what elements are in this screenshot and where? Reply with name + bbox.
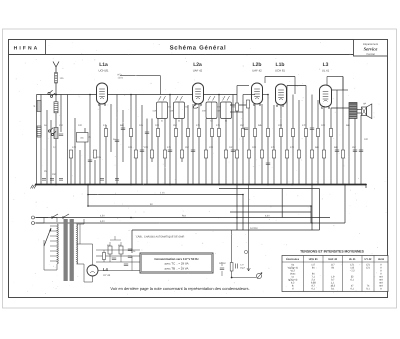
svg-text:C.P.: C.P. [240, 264, 244, 267]
svg-text:L1b: L1b [276, 62, 285, 68]
svg-text:L3: L3 [323, 62, 329, 68]
svg-text:avec TC .. = 29 VA: avec TC .. = 29 VA [164, 262, 188, 266]
svg-text:220: 220 [209, 146, 214, 149]
svg-text:4,5V: 4,5V [100, 215, 105, 218]
svg-text:10n: 10n [97, 156, 102, 159]
svg-text:100: 100 [78, 124, 83, 127]
svg-text:L2b: L2b [253, 62, 262, 68]
svg-text:Rch: Rch [182, 215, 187, 218]
svg-text:Département: Département [363, 43, 378, 46]
svg-text:Unité: Unité [378, 258, 385, 261]
svg-text:UY 42: UY 42 [365, 258, 373, 261]
svg-text:HP: HP [363, 103, 367, 106]
svg-text:UAF 42: UAF 42 [252, 69, 262, 73]
svg-text:220: 220 [278, 124, 283, 127]
svg-text:UCH 81: UCH 81 [99, 69, 109, 73]
svg-text:2k2: 2k2 [240, 124, 245, 127]
svg-text:220: 220 [144, 146, 149, 149]
svg-text:50+50: 50+50 [219, 262, 226, 265]
svg-text:UCH 81: UCH 81 [309, 258, 319, 261]
svg-text:Consommation vers 117 V 50 Hz: Consommation vers 117 V 50 Hz [154, 257, 199, 261]
svg-text:Central: Central [366, 53, 375, 56]
svg-text:25µF: 25µF [240, 267, 246, 270]
svg-text:2x220V: 2x220V [250, 227, 258, 230]
svg-text:100: 100 [155, 124, 160, 127]
svg-text:100: 100 [128, 146, 133, 149]
svg-text:2k2: 2k2 [59, 124, 64, 127]
svg-text:CÂBL. CHÂSSIS AUTOMATIQUE DE G: CÂBL. CHÂSSIS AUTOMATIQUE DE GMR [136, 235, 184, 239]
svg-text:UY 42: UY 42 [103, 274, 111, 277]
svg-text:470: 470 [290, 146, 295, 149]
svg-text:UCH 81: UCH 81 [275, 69, 285, 73]
svg-text:2k2: 2k2 [185, 146, 190, 149]
svg-text:S: S [34, 105, 36, 108]
svg-text:6,3V: 6,3V [265, 215, 270, 218]
svg-text:L4: L4 [103, 267, 109, 272]
svg-text:TENSIONS ET INTENSITES MOYENNE: TENSIONS ET INTENSITES MOYENNES [300, 249, 365, 253]
svg-text:Électrodes: Électrodes [286, 257, 299, 261]
svg-text:Service: Service [364, 47, 378, 52]
svg-text:L2a: L2a [193, 62, 202, 68]
svg-text:Schéma Général: Schéma Général [170, 45, 227, 52]
svg-text:470: 470 [302, 124, 307, 127]
svg-text:avec TB .. = 29 VA: avec TB .. = 29 VA [165, 266, 189, 270]
svg-text:100: 100 [252, 146, 257, 149]
svg-text:HIFNA: HIFNA [14, 46, 40, 52]
svg-text:10n: 10n [139, 124, 144, 127]
svg-text:Voir en dernière page la note: Voir en dernière page la note concernant… [110, 286, 249, 291]
svg-text:L1a: L1a [99, 62, 108, 68]
svg-text:−7,2: −7,2 [350, 269, 355, 272]
svg-text:6V: 6V [150, 203, 153, 206]
svg-text:100: 100 [321, 124, 326, 127]
svg-text:2k2: 2k2 [352, 146, 357, 149]
svg-text:121: 121 [366, 266, 371, 269]
svg-text:100: 100 [364, 138, 369, 141]
svg-text:125: 125 [60, 77, 65, 80]
svg-text:2k2: 2k2 [173, 124, 178, 127]
svg-text:6,3V: 6,3V [100, 220, 105, 223]
svg-text:UAF 42: UAF 42 [328, 258, 337, 261]
svg-text:UAF 42: UAF 42 [193, 69, 203, 73]
svg-text:470: 470 [72, 146, 77, 149]
svg-text:12Vx: 12Vx [118, 77, 124, 80]
svg-text:UL 41: UL 41 [322, 69, 330, 73]
svg-text:10n: 10n [229, 146, 234, 149]
svg-text:UL 41: UL 41 [349, 258, 356, 261]
